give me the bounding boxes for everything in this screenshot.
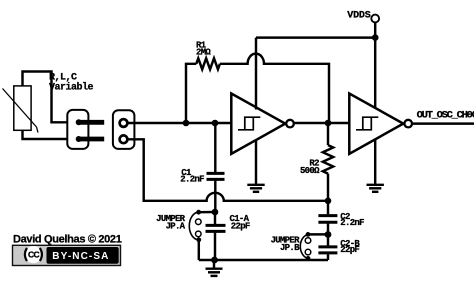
svg-text:2.2nF: 2.2nF xyxy=(180,174,204,184)
svg-text:JP.B: JP.B xyxy=(280,243,300,253)
ground rail xyxy=(199,259,328,261)
svg-text:BY-NC-SA: BY-NC-SA xyxy=(52,251,109,262)
label C1-A 22pF xyxy=(230,214,250,231)
ground symbol U2 xyxy=(367,185,384,192)
resistor R1 xyxy=(186,54,329,123)
wire node D to JP.A pin1 lead xyxy=(199,211,215,214)
svg-text:JP.A: JP.A xyxy=(166,221,186,231)
svg-text:OUT_OSC_CH00: OUT_OSC_CH00 xyxy=(417,110,474,122)
wire R1 left lead down to node A xyxy=(186,64,196,123)
wire JP.B pin2 to ground rail xyxy=(307,258,309,260)
svg-text:VDDS: VDDS xyxy=(347,11,370,22)
wire net C: J2 pin2 down and right to R2 bottom, hop over C1 xyxy=(128,139,328,201)
label JUMPER JP.B xyxy=(271,236,301,253)
wire VDDS vertical to U2 power pin xyxy=(374,22,376,109)
wire U1 output to node B xyxy=(294,122,349,124)
svg-text:500Ω: 500Ω xyxy=(300,166,320,176)
wire R1 right lead with hop over VDDS stem xyxy=(220,54,329,123)
variable impedance Z1 (R,L,C variable) xyxy=(3,86,39,133)
label R,L,C Variable xyxy=(49,72,94,93)
jumper JP.A arc xyxy=(189,212,199,240)
junction node D xyxy=(212,209,219,216)
connector J1 (plug) xyxy=(67,110,104,149)
ground stem U1 xyxy=(255,140,257,185)
R1 zigzag body xyxy=(196,58,220,69)
CC BY-NC-SA badge xyxy=(13,245,121,265)
svg-text:22pF: 22pF xyxy=(231,221,250,231)
junction node C xyxy=(325,198,332,205)
svg-text:22pF: 22pF xyxy=(340,245,359,255)
schmitt inverter U2 xyxy=(349,94,412,154)
label R1 2MΩ xyxy=(196,40,211,57)
resistor R2 xyxy=(323,123,333,201)
connector J2 (socket) xyxy=(113,110,134,149)
wire U2 output xyxy=(412,122,474,124)
wire JP.A pin2 to ground rail xyxy=(198,240,200,260)
junction ground rail xyxy=(211,257,218,264)
svg-text:CC: CC xyxy=(28,250,39,260)
svg-text:2MΩ: 2MΩ xyxy=(196,48,211,58)
capacitor C1-A xyxy=(206,212,226,260)
label C1 2.2nF xyxy=(180,168,204,184)
label C2-B 22pF xyxy=(340,239,360,255)
wire VDDS branch to U1 xyxy=(256,36,375,38)
jumper JP.A xyxy=(189,210,215,260)
label JUMPER JP.A xyxy=(156,214,186,231)
junction node A2 xyxy=(212,120,219,127)
VDDS power stem U1 xyxy=(255,38,257,110)
capacitor C2 xyxy=(318,201,337,235)
junction node A1 xyxy=(183,120,190,127)
wire Z1 bottom to J1 pin2 xyxy=(23,130,68,139)
capacitor C1 xyxy=(207,123,225,212)
svg-text:David Quelhas © 2021: David Quelhas © 2021 xyxy=(13,234,122,246)
svg-text:Variable: Variable xyxy=(49,82,94,94)
wire Z1 top to J1 pin1 xyxy=(23,72,68,123)
power flag VDDS xyxy=(256,11,379,110)
jumper JP.B xyxy=(300,232,328,261)
label R2 500Ω xyxy=(300,159,320,176)
ground symbol U1 xyxy=(247,185,264,192)
jumper JP.B arc xyxy=(300,234,308,258)
wire net A: J2 pin1 to U1 input xyxy=(128,122,232,124)
junction node B xyxy=(325,120,332,127)
ground stem U2 xyxy=(374,140,376,185)
schmitt inverter U1 xyxy=(231,94,294,154)
svg-text:2.2nF: 2.2nF xyxy=(340,218,364,228)
wire node F to JP.B pin1 lead xyxy=(308,233,328,235)
ground symbol bottom xyxy=(206,260,223,276)
junction node F xyxy=(325,231,332,238)
junction VDDS branch xyxy=(372,34,379,41)
label C2 2.2nF xyxy=(340,212,364,228)
capacitor C2-B xyxy=(318,235,337,261)
